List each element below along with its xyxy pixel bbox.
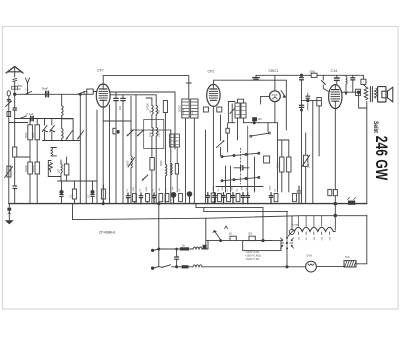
capacitor C27 (241, 193, 244, 204)
output transformer T4 (361, 75, 378, 101)
resistor R9a (163, 101, 167, 131)
svg-text:0,1µF: 0,1µF (27, 112, 34, 116)
svg-text:C14: C14 (331, 69, 338, 73)
IF transformer T3 (235, 99, 246, 140)
resistor R37 (293, 194, 297, 202)
wire cathode (96, 110, 98, 204)
potentiometer arrow P5 (142, 175, 148, 180)
switch S1 (wave switch on antenna wire) (25, 92, 32, 95)
resistor R3 (35, 119, 40, 204)
tube V1 CF7 (96, 84, 110, 107)
capacitor C12 (121, 95, 125, 204)
resistor R27 (230, 236, 236, 240)
svg-text:≈220V 0,3Ω: ≈220V 0,3Ω (245, 257, 259, 261)
svg-text:CV9: CV9 (306, 254, 312, 258)
capacitor C29 (175, 248, 179, 268)
svg-text:1A: 1A (182, 243, 186, 247)
T1 coil labels (150, 108, 194, 137)
fuse F1 (180, 247, 189, 250)
wire tube V1 down (102, 107, 104, 203)
small rotated value labels (25, 71, 350, 259)
electrolytic C10 (91, 181, 94, 204)
heater taps (298, 216, 329, 235)
capacitor C27b (246, 193, 249, 204)
svg-text:0,5M: 0,5M (277, 162, 280, 168)
wire right vertical (366, 102, 368, 204)
terminal blob TB1 (205, 241, 207, 245)
tube V4 C14 (329, 85, 342, 109)
resistor R7 (101, 185, 105, 204)
resistor R22 (179, 194, 183, 202)
switch S2 (78, 92, 86, 95)
electrolytic C36 (187, 192, 192, 204)
svg-text:Zf=468kHz: Zf=468kHz (99, 231, 116, 235)
wire switch feed (220, 115, 222, 141)
wire to right vertical (356, 216, 367, 264)
wire row left (15, 156, 30, 158)
antenna series capacitor C1 (12, 86, 18, 95)
resistor R5 (64, 157, 69, 181)
capacitor tick C33 (186, 82, 191, 84)
capacitor C11 (114, 92, 118, 204)
wire plate to top bus (102, 76, 104, 84)
capacitor C28 (269, 193, 272, 204)
capacitor C21 (139, 193, 142, 204)
oscillator coil L1a (62, 94, 73, 119)
wire to lamp (202, 266, 306, 268)
wire top bus 1 (103, 76, 189, 99)
resistor R6 (72, 181, 76, 204)
svg-text:5000: 5000 (127, 160, 130, 166)
wire switch box bottom (216, 186, 263, 188)
wire (342, 91, 359, 93)
resistor R9b (150, 158, 154, 171)
wire detector row (244, 122, 278, 124)
wire vertical (312, 101, 314, 204)
choke L6 (193, 265, 202, 267)
potentiometer P2 (302, 133, 310, 204)
resistor R30 (226, 123, 229, 152)
grid capacitor C31 (252, 117, 257, 121)
wire V2 plate up and top bus 2 (213, 80, 286, 84)
svg-text:5000: 5000 (310, 71, 316, 74)
wire (103, 120, 131, 122)
resistor R10 (211, 193, 215, 204)
bus B3 (204, 211, 288, 213)
capacitor C26 (231, 193, 234, 204)
wire lead (247, 126, 249, 192)
capacitor C20 (126, 193, 129, 204)
wire (48, 161, 51, 177)
capacitor C13 (coupling between top buses) (253, 75, 259, 80)
electrolytic C16 (306, 93, 310, 110)
IF transformer T1 (double tuned) (144, 95, 164, 204)
resistor R23 (218, 194, 222, 202)
svg-text:10000: 10000 (32, 164, 35, 172)
coil L9 (166, 130, 167, 204)
wire grid lead 2 (205, 130, 207, 204)
resistor R15 (in line on bus3) (311, 73, 317, 77)
mains terminal N2 (152, 267, 158, 269)
electrolytic C9 (60, 181, 63, 204)
svg-text:≈110V 0,6Ω: ≈110V 0,6Ω (245, 250, 259, 254)
svg-text:500: 500 (58, 168, 61, 173)
svg-text:50000: 50000 (25, 164, 28, 172)
capacitor C22 (152, 193, 155, 204)
capacitor C4 0,1uF (31, 116, 33, 120)
resistor R13 (280, 140, 284, 192)
svg-text:220: 220 (248, 233, 253, 236)
dial lamp CV9 (306, 261, 317, 272)
wire V2 cathode down (212, 106, 214, 193)
resistor R1 (13, 147, 17, 157)
coil L4 (variable) (128, 121, 135, 204)
electrolytic C23 (171, 192, 176, 203)
capacitor C14 (234, 166, 249, 170)
heater tap labels (298, 236, 331, 240)
earth terminal E (26, 78, 30, 94)
capacitor C19 (351, 75, 355, 92)
switch lever S9 (250, 123, 270, 138)
svg-text:CF2: CF2 (208, 70, 215, 74)
oscillator coil L1b (variable) (62, 119, 73, 141)
svg-text:CF7: CF7 (97, 69, 104, 73)
wire drops to bottom section (158, 204, 160, 267)
svg-text:CBC1: CBC1 (269, 69, 279, 73)
bus B4 (heater rail) (73, 204, 367, 220)
potentiometer arrow P1 (6, 101, 12, 107)
svg-text:10000: 10000 (147, 102, 150, 110)
wire corner down (277, 123, 279, 192)
svg-text:0,1: 0,1 (70, 194, 73, 198)
capacitor C25 (222, 193, 225, 204)
resistor R14 (278, 140, 292, 192)
capacitor C3 (13, 108, 17, 110)
mains switch S7 (213, 226, 227, 242)
svg-text:B.rosa: B.rosa (292, 224, 299, 227)
svg-text:Seibt: Seibt (372, 121, 379, 133)
trimmer C32b (137, 130, 143, 136)
junction dots on buses (158, 202, 160, 204)
coil L5 hanging (345, 75, 348, 94)
svg-text:100: 100 (258, 118, 263, 121)
wire bottom row 1 (206, 240, 272, 242)
wire grid network (302, 100, 322, 102)
svg-text:10000: 10000 (158, 130, 160, 137)
svg-text:≈150V 0,45Ω: ≈150V 0,45Ω (245, 253, 261, 257)
capacitor C24 (213, 193, 216, 204)
band switch lever S4 (217, 140, 260, 157)
potentiometer P3 (5, 166, 13, 178)
mains terminal N1 (152, 249, 159, 251)
tube V3 CBC1 (261, 75, 281, 122)
bus jog J1 (195, 204, 197, 208)
svg-text:5000: 5000 (25, 132, 28, 138)
resistor R21 (165, 194, 169, 202)
wire (14, 119, 16, 148)
resistor R19 (146, 194, 150, 204)
shield loop (228, 102, 235, 123)
transformer T5 (170, 134, 180, 192)
svg-text:3000: 3000 (150, 131, 152, 137)
wire grid row (15, 118, 73, 120)
terminal block left column (6, 91, 12, 204)
wire selector down (286, 248, 288, 266)
svg-text:0,1: 0,1 (88, 194, 91, 198)
wire grid row to V1 (110, 91, 175, 93)
plug terminal TB2 (182, 265, 189, 268)
capacitor C2 5kpF (46, 91, 49, 96)
resistor R28 (249, 236, 255, 240)
band switch lever S5 (221, 148, 260, 184)
capacitor C5 (13, 186, 17, 189)
resistor R20 (159, 194, 163, 202)
diode arrow D1 (281, 91, 286, 98)
resistor R31 (328, 190, 332, 196)
resistor R24 (227, 194, 231, 202)
wire (48, 176, 61, 178)
svg-text:20000: 20000 (183, 108, 185, 115)
trimmer C18 (334, 75, 339, 84)
trimmer C30 (230, 104, 235, 123)
resistor R18 (133, 194, 137, 204)
selector rotor to heater (288, 229, 294, 236)
svg-text:5000: 5000 (32, 132, 35, 138)
variable capacitor C6 (tuning gang) (43, 119, 48, 141)
grid resistor R8 (84, 89, 96, 94)
capacitor C15 on bus3 (299, 74, 303, 204)
resistor R34 (217, 107, 222, 112)
tube V2 CF2 (207, 84, 220, 106)
coil L2 (51, 148, 57, 156)
resistor R16 (317, 98, 322, 157)
wire vertical (170, 130, 172, 204)
voltage selector SEL1 (contact ring) (280, 237, 293, 250)
svg-text:1M: 1M (308, 165, 311, 168)
wire (43, 140, 81, 142)
grid cap stem C17 (322, 75, 329, 91)
capacitor C34 (297, 186, 301, 204)
wire riser (207, 241, 209, 249)
wire long vertical 2 (85, 94, 87, 203)
ground arrow GND1 (5, 204, 14, 225)
wire tube pin lead (109, 105, 111, 204)
bus B1 (chassis) (9, 203, 367, 205)
wire long vertical (79, 94, 81, 203)
wire grid lead (135, 95, 137, 204)
component value specks row (126, 185, 276, 191)
wire V4 heater chain down (334, 109, 336, 230)
wire vertical from antenna node (13, 94, 17, 118)
wire top bus2 corner down (285, 80, 287, 130)
svg-text:100: 100 (119, 105, 122, 110)
resistor R35 (113, 128, 116, 134)
heater dropping resistor L7 (292, 216, 335, 232)
coil L8 (171, 163, 172, 175)
wire (130, 97, 132, 122)
capacitor C37 (206, 193, 209, 204)
bus3 drop to selector (286, 212, 288, 238)
selector plate box (243, 241, 281, 251)
resistor R36 (175, 164, 178, 175)
mains switch S8 (158, 265, 182, 268)
wire (9, 122, 28, 124)
resistor R11 (264, 156, 270, 163)
svg-text:5kpF: 5kpF (42, 87, 49, 91)
resistor R25 (236, 194, 240, 202)
bus B2 (196, 207, 263, 209)
svg-text:LA: LA (26, 88, 29, 92)
wire drop (72, 119, 74, 141)
switch S3 (20, 116, 27, 119)
resistor R2 (28, 119, 33, 204)
svg-text:7kΩ: 7kΩ (345, 256, 350, 259)
wire top bus 3 (256, 74, 363, 76)
choke L6a (193, 247, 202, 249)
coil L3 (61, 160, 62, 181)
capacitor C35 (117, 130, 120, 133)
resistor R32 (333, 190, 337, 196)
potentiometer arrow P4 (78, 131, 84, 139)
bus2 drop (262, 208, 264, 241)
resistor R29 (hatched) (344, 261, 356, 267)
wire (254, 157, 256, 192)
svg-text:5000: 5000 (192, 109, 194, 115)
resistor R26 (274, 194, 278, 202)
antenna A1 (6, 67, 23, 87)
svg-text:20000: 20000 (179, 104, 182, 112)
wire (316, 265, 344, 267)
trimmer C32 (127, 130, 133, 136)
svg-text:246 GW: 246 GW (372, 136, 390, 181)
wire fuse row (159, 248, 180, 250)
resistor R33 (203, 107, 208, 112)
variable capacitor C7 (tuning gang) (50, 119, 55, 141)
loudspeaker LS1 (378, 87, 393, 102)
resistor R4 zigzag (49, 163, 53, 173)
switch S6 on bus (348, 198, 356, 205)
wire antenna bus (15, 93, 87, 95)
oscillator transformer T2 (182, 99, 198, 204)
bus jog J2 (203, 208, 205, 212)
resistor R17 (356, 89, 361, 95)
svg-text:3000: 3000 (160, 160, 163, 166)
